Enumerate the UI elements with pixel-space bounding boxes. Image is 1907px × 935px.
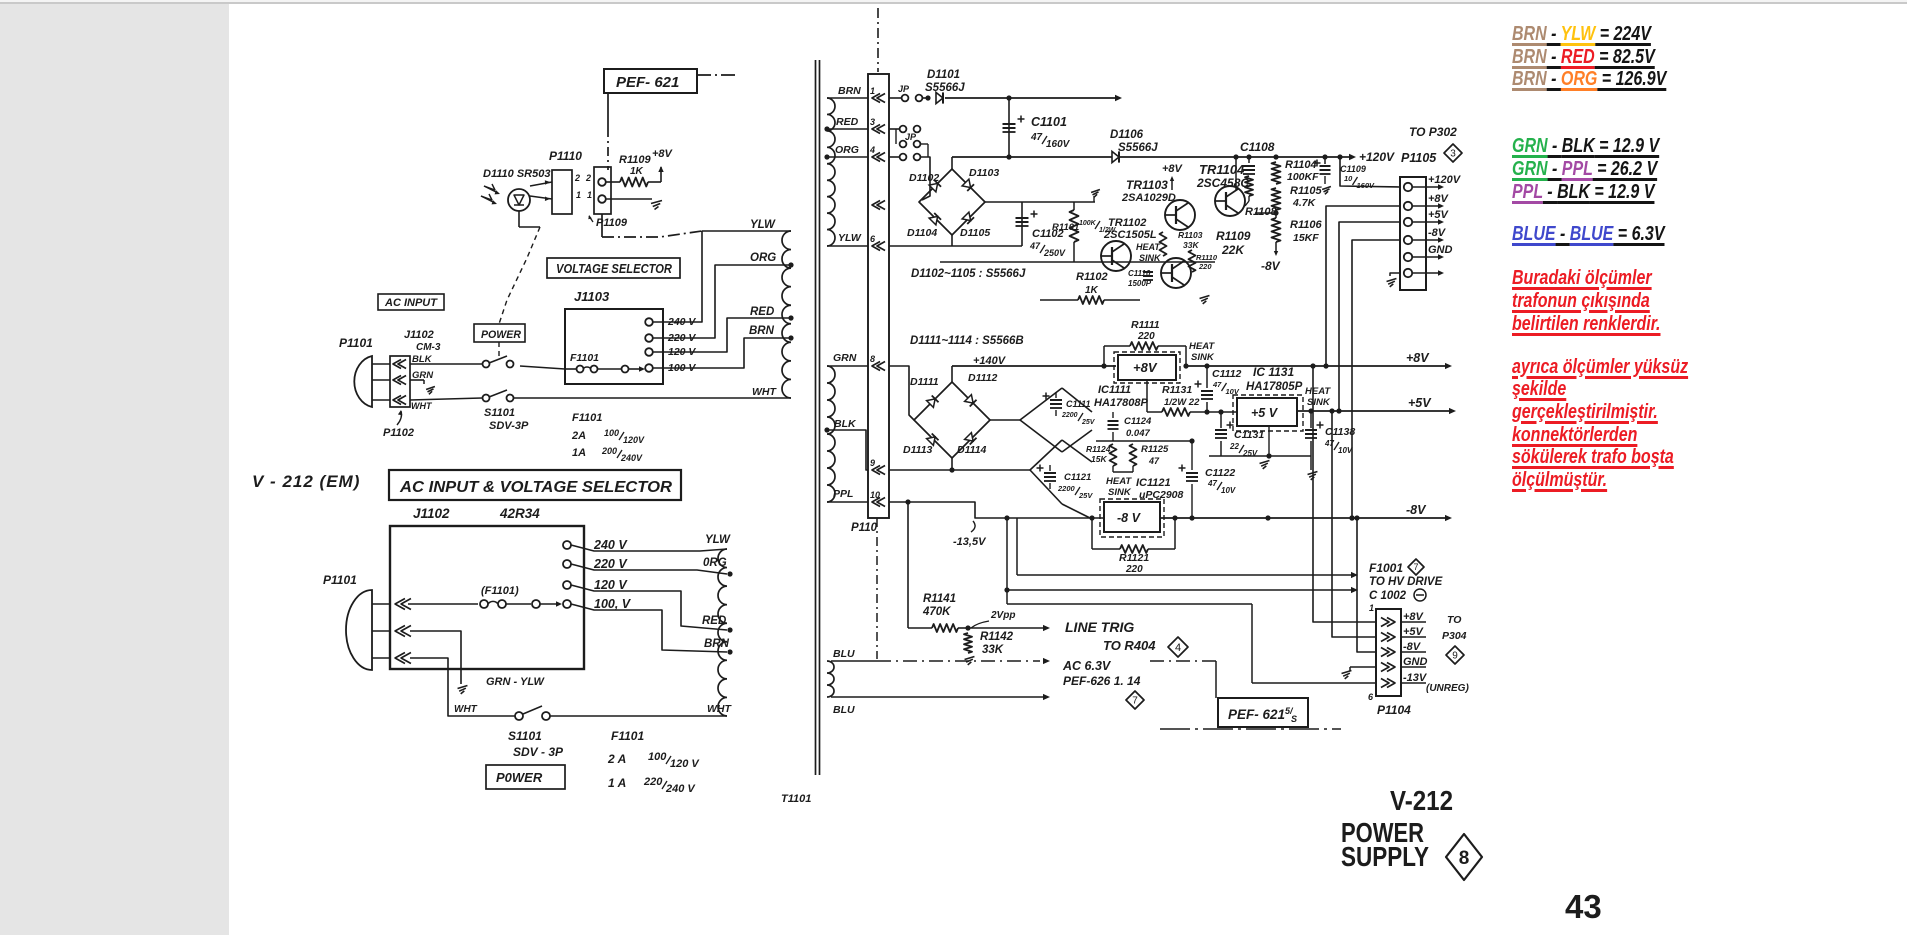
svg-text:2SA1029D: 2SA1029D: [1121, 192, 1176, 204]
svg-text:1K: 1K: [630, 166, 644, 177]
svg-text:240 V: 240 V: [593, 538, 628, 552]
svg-text:YLW: YLW: [838, 232, 862, 244]
svg-text:47: 47: [1324, 439, 1334, 448]
svg-text:10V: 10V: [1221, 486, 1236, 495]
svg-text:C1121: C1121: [1064, 472, 1091, 483]
svg-text:S: S: [1291, 714, 1297, 724]
svg-text:HA17805P: HA17805P: [1246, 381, 1303, 393]
svg-text:2SC458C: 2SC458C: [1196, 176, 1249, 190]
svg-text:S5566J: S5566J: [925, 82, 965, 94]
svg-text:120 V: 120 V: [594, 578, 628, 592]
svg-text:7: 7: [1413, 562, 1418, 572]
svg-text:6: 6: [1368, 692, 1374, 702]
svg-text:SDV - 3P: SDV - 3P: [513, 745, 564, 759]
svg-text:220: 220: [1198, 262, 1212, 271]
svg-text:HEAT: HEAT: [1305, 386, 1331, 397]
svg-text:6: 6: [870, 234, 876, 244]
svg-text:AC INPUT & VOLTAGE SELECTOR: AC INPUT & VOLTAGE SELECTOR: [399, 479, 673, 496]
svg-text:AC 6.3V: AC 6.3V: [1062, 659, 1112, 673]
svg-text:22: 22: [1229, 442, 1239, 451]
svg-text:WHT: WHT: [454, 704, 478, 715]
svg-text:GRN: GRN: [833, 352, 857, 364]
svg-text:D1102: D1102: [909, 172, 939, 184]
svg-text:BRN: BRN: [749, 325, 775, 337]
svg-text:R1131: R1131: [1162, 384, 1192, 396]
svg-text:+5 V: +5 V: [1251, 406, 1279, 420]
svg-text:D1102~1105 : S5566J: D1102~1105 : S5566J: [911, 268, 1026, 280]
svg-text:42R34: 42R34: [499, 506, 540, 521]
svg-text:C1111: C1111: [1066, 399, 1091, 409]
svg-text:0.047: 0.047: [1126, 428, 1150, 439]
svg-text:22K: 22K: [1221, 243, 1245, 257]
svg-text:BLK: BLK: [834, 418, 857, 430]
svg-text:GRN - YLW: GRN - YLW: [486, 676, 545, 688]
svg-text:R1101: R1101: [1052, 222, 1079, 233]
svg-text:F1101: F1101: [570, 352, 599, 364]
svg-text:C1110: C1110: [1128, 269, 1151, 278]
svg-text:D1114: D1114: [957, 444, 987, 456]
svg-text:D1113: D1113: [903, 444, 933, 456]
svg-text:160V: 160V: [1357, 181, 1376, 190]
svg-text:C1109: C1109: [1340, 164, 1366, 174]
svg-text:R1106: R1106: [1290, 219, 1322, 231]
svg-text:R1141: R1141: [923, 593, 956, 605]
svg-text:2200: 2200: [1061, 412, 1078, 419]
svg-text:10V: 10V: [1338, 446, 1353, 455]
svg-text:+8V: +8V: [1162, 163, 1184, 175]
svg-text:100: 100: [648, 751, 667, 763]
svg-text:100KF: 100KF: [1287, 171, 1319, 183]
svg-text:BRN: BRN: [838, 85, 861, 97]
svg-text:1/2W 22: 1/2W 22: [1164, 397, 1200, 408]
svg-text:2Vpp: 2Vpp: [990, 610, 1015, 621]
svg-text:P1104: P1104: [1377, 703, 1411, 717]
svg-text:9: 9: [1452, 651, 1458, 662]
svg-text:BLU: BLU: [833, 704, 855, 716]
svg-text:BLU: BLU: [833, 648, 855, 660]
svg-text:100, V: 100, V: [594, 597, 632, 611]
svg-text:1: 1: [1369, 603, 1374, 613]
svg-text:YLW: YLW: [705, 534, 731, 546]
svg-text:1: 1: [576, 190, 581, 200]
svg-text:R1124: R1124: [1086, 444, 1111, 454]
svg-text:V-212: V-212: [1390, 785, 1453, 816]
svg-text:LINE TRIG: LINE TRIG: [1065, 619, 1134, 635]
svg-text:220: 220: [1137, 331, 1155, 342]
svg-text:BRN: BRN: [704, 638, 730, 650]
svg-text:J1102: J1102: [413, 506, 450, 521]
svg-text:C1101: C1101: [1031, 115, 1067, 129]
svg-text:47: 47: [1212, 380, 1222, 389]
svg-text:C1112: C1112: [1212, 368, 1242, 380]
svg-text:1: 1: [587, 190, 592, 200]
svg-text:10: 10: [870, 490, 880, 500]
svg-text:R1111: R1111: [1131, 319, 1160, 331]
svg-text:470K: 470K: [922, 606, 951, 618]
svg-text:J1103: J1103: [574, 289, 610, 304]
svg-text:TR1104: TR1104: [1199, 162, 1245, 177]
svg-text:9: 9: [870, 458, 875, 468]
svg-text:T1101: T1101: [781, 793, 811, 805]
svg-text:S1101: S1101: [508, 729, 542, 743]
svg-text:V - 212 (EM): V - 212 (EM): [252, 472, 360, 491]
svg-text:240V: 240V: [620, 453, 643, 463]
svg-text:D1105: D1105: [960, 227, 990, 239]
svg-text:(F1101): (F1101): [481, 585, 519, 597]
svg-text:1500P: 1500P: [1128, 279, 1152, 288]
svg-text:240 V: 240 V: [665, 783, 696, 795]
svg-text:D1103: D1103: [969, 167, 999, 179]
svg-text:100: 100: [604, 428, 619, 438]
svg-text:-8 V: -8 V: [1117, 511, 1142, 525]
svg-text:-8V: -8V: [1406, 503, 1427, 517]
svg-text:IC1121: IC1121: [1136, 477, 1171, 489]
svg-text:D1101: D1101: [927, 69, 960, 81]
svg-text:R1110: R1110: [1196, 253, 1218, 262]
svg-text:P110: P110: [851, 522, 878, 534]
svg-text:VOLTAGE SELECTOR: VOLTAGE SELECTOR: [556, 262, 672, 276]
svg-text:P1105: P1105: [1401, 151, 1437, 165]
svg-text:+8V: +8V: [1428, 193, 1450, 205]
svg-text:3: 3: [1450, 149, 1456, 160]
svg-text:J1102: J1102: [404, 329, 434, 341]
svg-text:PEF- 621: PEF- 621: [616, 74, 679, 91]
svg-text:25V: 25V: [1078, 491, 1093, 500]
svg-text:R1103: R1103: [1178, 230, 1203, 240]
svg-text:D1104: D1104: [907, 227, 937, 239]
svg-text:WHT: WHT: [411, 401, 433, 411]
svg-text:IC1111: IC1111: [1098, 384, 1131, 396]
svg-text:TO HV DRIVE: TO HV DRIVE: [1369, 576, 1443, 588]
svg-text:S1101: S1101: [484, 407, 515, 419]
svg-text:+8V: +8V: [1403, 611, 1425, 623]
svg-text:+5V: +5V: [1403, 626, 1425, 638]
svg-text:ORG: ORG: [835, 144, 859, 156]
svg-text:C1124: C1124: [1124, 416, 1152, 427]
svg-text:-13V: -13V: [1403, 672, 1428, 684]
svg-text:R1125: R1125: [1141, 444, 1169, 455]
svg-text:YLW: YLW: [750, 219, 776, 231]
svg-text:200: 200: [601, 446, 617, 456]
svg-text:7: 7: [1132, 696, 1138, 707]
svg-text:10: 10: [1344, 174, 1353, 183]
svg-text:C1138: C1138: [1325, 426, 1355, 438]
svg-text:PEF-626 1. 14: PEF-626 1. 14: [1063, 674, 1141, 688]
svg-text:HEAT: HEAT: [1136, 242, 1161, 252]
svg-text:HEAT: HEAT: [1189, 341, 1215, 352]
svg-text:220: 220: [1125, 564, 1143, 575]
svg-text:R1108: R1108: [1245, 206, 1277, 218]
svg-text:C 1002: C 1002: [1369, 590, 1407, 602]
svg-text:47: 47: [1029, 241, 1041, 251]
svg-text:F1101: F1101: [611, 729, 644, 743]
svg-text:15KF: 15KF: [1293, 232, 1319, 244]
svg-text:IC 1131: IC 1131: [1253, 365, 1294, 379]
svg-text:PPL: PPL: [833, 488, 853, 500]
svg-text:D1106: D1106: [1110, 129, 1144, 141]
svg-text:R1105: R1105: [1290, 185, 1322, 197]
svg-text:-13,5V: -13,5V: [953, 536, 987, 548]
svg-text:4: 4: [1175, 642, 1181, 654]
svg-text:120 V: 120 V: [670, 758, 700, 770]
svg-text:2A: 2A: [571, 430, 586, 442]
svg-text:+120V: +120V: [1428, 174, 1462, 186]
svg-text:160V: 160V: [1046, 139, 1071, 150]
svg-text:+8V: +8V: [1406, 351, 1430, 365]
svg-text:+120V: +120V: [1359, 150, 1395, 164]
svg-text:ORG: ORG: [750, 252, 776, 264]
svg-text:-8V: -8V: [1403, 641, 1422, 653]
svg-text:uPC2908: uPC2908: [1139, 489, 1184, 501]
svg-text:-8V: -8V: [1261, 259, 1281, 273]
svg-text:220 V: 220 V: [593, 557, 628, 571]
svg-text:R1109: R1109: [619, 154, 651, 166]
svg-text:TO R404: TO R404: [1103, 638, 1156, 653]
svg-text:+8V: +8V: [652, 148, 674, 160]
svg-text:SINK: SINK: [1307, 397, 1331, 408]
svg-text:F1101: F1101: [572, 412, 602, 424]
svg-text:43: 43: [1565, 888, 1602, 925]
svg-text:P1101: P1101: [323, 573, 357, 587]
svg-text:+5V: +5V: [1408, 396, 1432, 410]
svg-text:P1109: P1109: [596, 217, 628, 229]
svg-text:D1111: D1111: [910, 376, 939, 388]
svg-text:R1104: R1104: [1285, 159, 1317, 171]
svg-text:120V: 120V: [623, 435, 645, 445]
svg-text:POWER: POWER: [481, 329, 521, 341]
svg-text:P1101: P1101: [339, 336, 373, 350]
svg-text:GND: GND: [1403, 656, 1428, 668]
svg-text:TO P302: TO P302: [1409, 125, 1457, 139]
svg-text:SDV-3P: SDV-3P: [489, 420, 529, 432]
svg-text:TR1103: TR1103: [1126, 178, 1168, 192]
svg-text:2: 2: [574, 173, 580, 183]
svg-text:PEF- 621: PEF- 621: [1228, 707, 1285, 722]
svg-text:4.7K: 4.7K: [1292, 197, 1317, 209]
svg-text:D1110 SR503: D1110 SR503: [483, 168, 550, 180]
svg-text:25V: 25V: [1081, 419, 1096, 426]
svg-text:SINK: SINK: [1191, 352, 1215, 363]
svg-text:HEAT: HEAT: [1106, 476, 1132, 487]
svg-text:33K: 33K: [1183, 240, 1199, 250]
svg-text:P304: P304: [1442, 630, 1467, 642]
svg-text:C1122: C1122: [1205, 467, 1235, 479]
svg-text:CM-3: CM-3: [416, 342, 441, 353]
svg-text:2: 2: [585, 173, 591, 183]
svg-text:+8V: +8V: [1133, 360, 1158, 375]
svg-text:15K: 15K: [1091, 454, 1107, 464]
svg-text:(UNREG): (UNREG): [1426, 683, 1469, 694]
svg-text:47: 47: [1030, 132, 1043, 143]
svg-text:3: 3: [870, 117, 875, 127]
svg-text:8: 8: [870, 354, 875, 364]
svg-text:1K: 1K: [1085, 285, 1099, 296]
svg-text:P1102: P1102: [383, 427, 414, 439]
svg-text:1 A: 1 A: [608, 776, 626, 790]
svg-text:AC INPUT: AC INPUT: [384, 297, 438, 309]
svg-text:TR1102: TR1102: [1108, 217, 1146, 229]
svg-text:R1109: R1109: [1216, 229, 1251, 243]
svg-text:S5566J: S5566J: [1118, 142, 1158, 154]
svg-text:250V: 250V: [1043, 248, 1066, 258]
svg-text:P1110: P1110: [549, 149, 582, 163]
svg-text:C1131: C1131: [1234, 429, 1264, 441]
svg-text:RED: RED: [836, 116, 859, 128]
svg-text:F1001: F1001: [1369, 561, 1403, 575]
svg-text:+5V: +5V: [1428, 209, 1450, 221]
svg-text:C1108: C1108: [1240, 140, 1275, 154]
svg-text:8: 8: [1459, 848, 1470, 869]
svg-text:SUPPLY: SUPPLY: [1341, 841, 1429, 872]
svg-text:SINK: SINK: [1108, 487, 1132, 498]
svg-text:1: 1: [870, 86, 875, 96]
svg-text:33K: 33K: [982, 644, 1004, 656]
svg-text:WHT: WHT: [752, 386, 777, 398]
svg-text:D1112: D1112: [968, 372, 998, 384]
svg-text:JP: JP: [898, 84, 910, 94]
svg-text:220: 220: [643, 776, 663, 788]
svg-text:-8V: -8V: [1428, 227, 1447, 239]
svg-text:TO: TO: [1447, 614, 1461, 626]
svg-text:SINK: SINK: [1139, 253, 1162, 263]
svg-text:47: 47: [1148, 456, 1160, 466]
svg-text:JP: JP: [905, 132, 917, 142]
svg-text:2SC1505L: 2SC1505L: [1103, 229, 1157, 241]
svg-text:HA17808P: HA17808P: [1094, 397, 1148, 409]
svg-text:4: 4: [869, 145, 875, 155]
svg-text:2 A: 2 A: [607, 752, 626, 766]
svg-text:P0WER: P0WER: [496, 770, 543, 785]
svg-text:GND: GND: [1428, 244, 1453, 256]
svg-text:D1111~1114 : S5566B: D1111~1114 : S5566B: [910, 335, 1024, 347]
svg-text:R1121: R1121: [1119, 552, 1149, 564]
svg-text:RED: RED: [750, 306, 774, 318]
svg-text:1A: 1A: [572, 447, 586, 459]
svg-text:R1142: R1142: [980, 631, 1014, 643]
svg-text:2200: 2200: [1057, 484, 1076, 493]
svg-text:47: 47: [1207, 479, 1217, 488]
svg-text:R1102: R1102: [1076, 271, 1108, 283]
svg-text:100K: 100K: [1079, 220, 1097, 227]
